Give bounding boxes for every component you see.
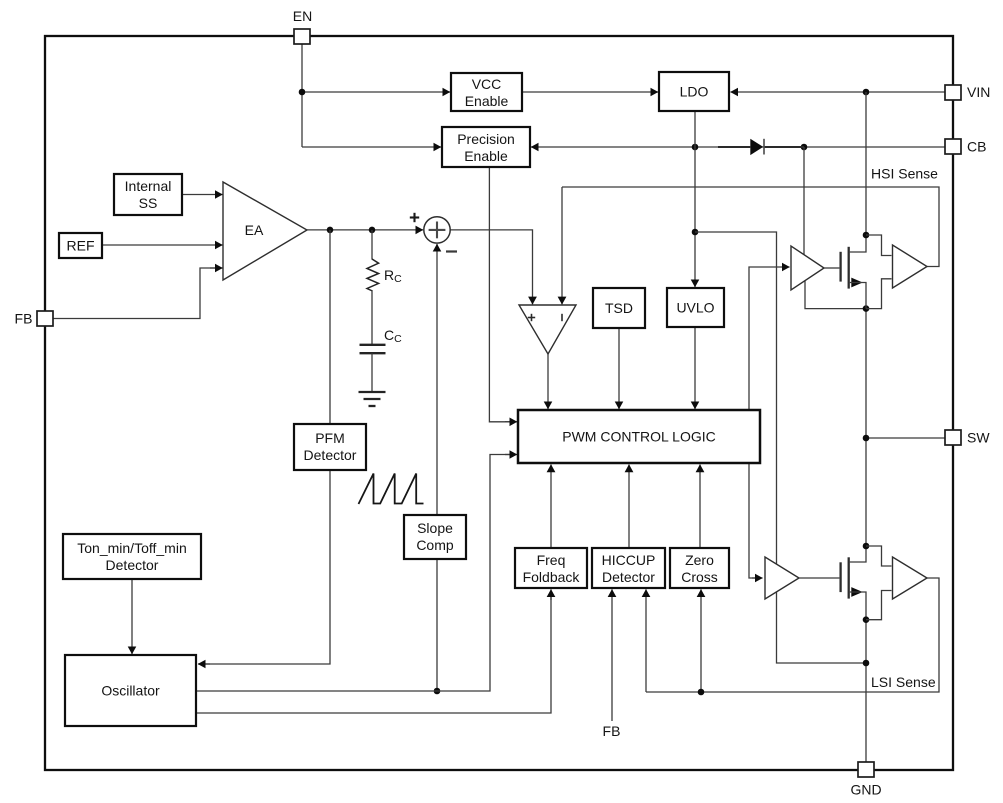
junction EN branch xyxy=(299,89,306,96)
wire HICCUP Detector to PWM logic xyxy=(628,465,630,548)
svg-text:FB: FB xyxy=(15,311,33,327)
wire FB input to HICCUP Detector xyxy=(611,589,613,721)
svg-text:Enable: Enable xyxy=(464,148,508,164)
svg-text:FB: FB xyxy=(603,723,621,739)
svg-text:VCC: VCC xyxy=(472,76,502,92)
box Zero Cross xyxy=(670,548,729,588)
box PWM CONTROL LOGIC xyxy=(518,410,760,463)
box Ton_min/Toff_min Detector xyxy=(63,534,201,579)
svg-text:SW: SW xyxy=(967,430,990,446)
wire VCC Enable to LDO xyxy=(522,91,658,93)
pin VIN xyxy=(945,84,990,100)
wire Internal SS to EA xyxy=(182,194,223,196)
box REF xyxy=(59,233,102,258)
svg-text:Enable: Enable xyxy=(465,93,509,109)
wire Ton detector to Oscillator xyxy=(131,579,133,654)
wire RC to CC xyxy=(371,291,373,345)
wire HS driver bottom rail to SW xyxy=(805,281,866,309)
junction LS driver rail on GND net xyxy=(863,660,870,667)
svg-text:CC: CC xyxy=(384,327,402,345)
junction CB bootstrap branch xyxy=(801,144,808,151)
svg-text:UVLO: UVLO xyxy=(676,300,714,316)
svg-text:CB: CB xyxy=(967,139,986,155)
wire REF to EA xyxy=(102,244,223,246)
wire oscillator to slope comp xyxy=(436,559,438,691)
junction Zero Cross feed xyxy=(698,689,705,696)
svg-text:VIN: VIN xyxy=(967,84,990,100)
junction slope comp feed xyxy=(434,688,441,695)
wire LS sense comparator bottom tap xyxy=(866,591,892,620)
svg-text:SS: SS xyxy=(139,195,158,211)
svg-text:TSD: TSD xyxy=(605,300,633,316)
wire oscillator output 1 to PWM logic xyxy=(196,455,516,692)
svg-text:Detector: Detector xyxy=(106,557,159,573)
wire TSD to PWM logic xyxy=(618,328,620,409)
node plus sign of summing input xyxy=(410,213,419,222)
diode bootstrap xyxy=(718,139,804,155)
wire summing output to PWM comparator + input xyxy=(451,230,533,296)
capacitor CC xyxy=(360,345,386,353)
waveform sawtooth slope ramp xyxy=(359,474,424,505)
resistor RC xyxy=(367,259,379,291)
wire SW net vertical xyxy=(865,309,867,546)
junction VCC node on CB line xyxy=(692,144,699,151)
node minus sign of summing input xyxy=(446,250,457,252)
wire Freq Foldback to PWM logic xyxy=(550,465,552,548)
transistor HS FET xyxy=(824,235,866,309)
wire HSI Sense down to PWM comparator I input xyxy=(561,187,563,304)
wire LS source to GND pin xyxy=(865,620,867,762)
svg-text:HICCUP: HICCUP xyxy=(602,552,656,568)
wire PWM logic to HS driver xyxy=(749,267,770,410)
wire Zero Cross to PWM logic xyxy=(699,465,701,548)
box TSD xyxy=(593,288,645,328)
op-amp HS gate driver xyxy=(791,246,824,290)
svg-text:Cross: Cross xyxy=(681,569,718,585)
svg-text:Ton_min/Toff_min: Ton_min/Toff_min xyxy=(77,540,186,556)
svg-text:Oscillator: Oscillator xyxy=(101,683,160,699)
svg-text:LSI Sense: LSI Sense xyxy=(871,674,936,690)
svg-text:HSI Sense: HSI Sense xyxy=(871,166,938,182)
junction EA output to PFM xyxy=(327,227,334,234)
wire oscillator output 2 to Freq Foldback xyxy=(196,592,551,713)
box Internal SS xyxy=(114,174,182,215)
svg-text:EA: EA xyxy=(245,222,264,238)
box VCC Enable xyxy=(451,73,522,111)
op-amp EA xyxy=(223,182,307,280)
op-amp HSI sense comparator xyxy=(893,245,928,288)
pin FB xyxy=(15,311,53,327)
svg-text:Detector: Detector xyxy=(304,447,357,463)
wire PWM logic to LS driver xyxy=(749,464,755,579)
junction SW pin branch xyxy=(863,435,870,442)
wire LSI Sense to Zero Cross xyxy=(700,589,702,692)
summing junction xyxy=(424,217,450,243)
junction HS FET drain node xyxy=(863,232,870,239)
box UVLO xyxy=(667,288,724,327)
wire EN to VCC Enable xyxy=(302,91,450,93)
wire CB pin line to Precision Enable xyxy=(531,146,945,148)
box Precision Enable xyxy=(442,127,530,167)
wire PWM comparator output to PWM logic xyxy=(547,354,549,409)
svg-text:Freq: Freq xyxy=(537,552,566,568)
svg-text:Foldback: Foldback xyxy=(523,569,581,585)
wire HS sense comparator bottom tap xyxy=(866,279,892,309)
wire CC to ground xyxy=(371,353,373,392)
wire VIN pin to LDO xyxy=(731,91,946,93)
wire UVLO to PWM logic xyxy=(694,327,696,409)
svg-text:GND: GND xyxy=(850,782,881,798)
wire HS sense comparator top tap xyxy=(866,235,892,256)
transistor LS FET xyxy=(799,546,866,620)
wire FB pin to EA xyxy=(53,268,215,319)
wire EN to Precision Enable xyxy=(302,146,441,148)
svg-text:LDO: LDO xyxy=(680,84,709,100)
wire EA output down to PFM Detector xyxy=(329,230,331,424)
junction VCC to LS driver rail xyxy=(692,229,699,236)
box PFM Detector xyxy=(294,424,366,470)
wire LS sense comparator top tap xyxy=(866,546,892,566)
svg-text:Internal: Internal xyxy=(125,178,172,194)
junction VIN branch xyxy=(863,89,870,96)
pin SW xyxy=(945,430,990,446)
svg-text:Slope: Slope xyxy=(417,520,453,536)
box Slope Comp xyxy=(404,515,466,559)
wire VIN rail down to HS FET drain xyxy=(865,92,867,235)
wire EN net vertical from EN pin xyxy=(301,44,303,147)
pin GND xyxy=(850,762,881,798)
op-amp LSI sense comparator xyxy=(893,557,928,599)
svg-text:REF: REF xyxy=(67,238,95,254)
box HICCUP Detector xyxy=(592,548,665,588)
junction HS source node xyxy=(863,305,870,312)
junction LS FET drain node xyxy=(863,543,870,550)
wire compensation top xyxy=(371,230,373,260)
svg-text:PFM: PFM xyxy=(315,430,345,446)
box Freq Foldback xyxy=(515,548,587,588)
svg-text:Comp: Comp xyxy=(416,537,454,553)
junction LS FET source node xyxy=(863,616,870,623)
wire SW branch to pin xyxy=(866,437,945,439)
wire slope comp to summing junction xyxy=(436,244,438,515)
svg-text:Detector: Detector xyxy=(602,569,655,585)
box Oscillator xyxy=(65,655,196,726)
svg-text:Precision: Precision xyxy=(457,131,515,147)
pin EN xyxy=(293,8,312,44)
wire VCC to LS driver top rail xyxy=(695,232,777,564)
box LDO xyxy=(659,72,729,111)
wire PFM Detector to Oscillator xyxy=(200,470,330,664)
junction EA output to compensation xyxy=(369,227,376,234)
op-amp LS gate driver xyxy=(765,557,799,599)
svg-text:PWM CONTROL LOGIC: PWM CONTROL LOGIC xyxy=(562,429,716,445)
svg-text:Zero: Zero xyxy=(685,552,714,568)
wire Precision Enable down to PWM logic xyxy=(489,167,515,422)
pin CB xyxy=(945,139,986,155)
svg-text:EN: EN xyxy=(293,8,312,24)
wire EA output xyxy=(307,229,423,231)
wire HSI Sense net xyxy=(562,187,939,267)
ground compensation xyxy=(359,392,386,406)
op-amp PWM comparator xyxy=(519,305,576,354)
wire CB branch down to HS driver top rail xyxy=(803,147,805,255)
wire LSI Sense to HICCUP Detector xyxy=(645,589,647,692)
wire LSI Sense net xyxy=(646,578,939,692)
wire LS driver bottom rail to GND net xyxy=(777,592,867,663)
wire LDO output down to UVLO xyxy=(694,111,696,287)
svg-text:RC: RC xyxy=(384,267,402,285)
